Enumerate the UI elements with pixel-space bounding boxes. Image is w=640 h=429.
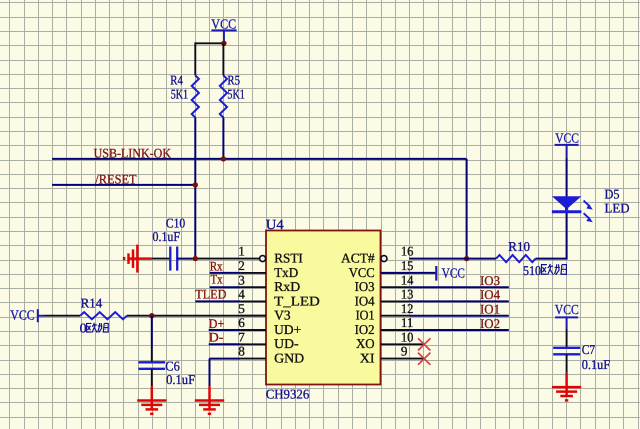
junction R14/C6/pin5 [149, 313, 154, 318]
U4 right pin lead 13 [381, 300, 410, 302]
svg-text:IO1: IO1 [356, 308, 375, 323]
wire D+ (pin6) [209, 329, 241, 331]
U4 left pin lead 3 [240, 286, 266, 288]
wire D- (pin7) [209, 343, 241, 345]
wire R14 to pin5 [127, 315, 266, 317]
svg-text:IO3: IO3 [480, 273, 500, 288]
svg-text:T_LED: T_LED [274, 293, 320, 308]
svg-text:0.1uF: 0.1uF [153, 229, 181, 244]
R10 value 510欧姆 [523, 263, 566, 278]
power port VCC (C7) [555, 302, 579, 329]
svg-text:VCC: VCC [211, 17, 236, 32]
ground (C7) [552, 373, 581, 401]
wire net USB-LINK-OK [52, 158, 467, 160]
svg-text:D+: D+ [209, 316, 224, 331]
wire IO1 (pin12) [409, 315, 509, 317]
svg-text:1: 1 [238, 244, 245, 259]
svg-text:15: 15 [401, 258, 414, 273]
svg-text:XO: XO [356, 336, 375, 351]
svg-text:8: 8 [238, 344, 245, 359]
svg-text:VCC: VCC [442, 265, 465, 280]
svg-text:GND: GND [274, 351, 304, 366]
U4 pin name UD- / XO [274, 336, 375, 351]
svg-text:Tx: Tx [211, 272, 223, 287]
svg-text:RxD: RxD [274, 279, 300, 294]
IC U4 CH9326 body [266, 218, 381, 401]
junction ACT#/USB-LINK-OK [464, 256, 469, 261]
U4 right pin lead 14 [381, 286, 410, 288]
wire VCC to LED anode [566, 158, 568, 197]
svg-text:/RESET: /RESET [95, 171, 136, 186]
U4 left pin lead 7 [240, 343, 266, 345]
svg-text:U4: U4 [266, 218, 284, 233]
svg-text:TxD: TxD [274, 265, 298, 280]
svg-text:0.1uF: 0.1uF [166, 372, 195, 387]
svg-text:IO2: IO2 [480, 316, 500, 331]
junction R5/USB-LINK-OK [221, 156, 226, 161]
capacitor C10 [152, 215, 186, 270]
wire VCC (pin15) [381, 272, 437, 274]
svg-text:10: 10 [401, 329, 414, 344]
wire ACT# to R10 [409, 258, 496, 260]
svg-text:R5: R5 [227, 73, 240, 88]
svg-text:510: 510 [523, 263, 541, 278]
svg-text:V3: V3 [274, 308, 291, 323]
wire Tx (pin3) [210, 286, 241, 288]
wire Rx (pin2) [210, 272, 241, 274]
U4 pin 1 bubble [260, 256, 266, 262]
svg-text:C7: C7 [582, 342, 596, 357]
U4 right pin lead 11 [381, 329, 410, 331]
wire VCC junction to R4 top [195, 43, 224, 75]
U4 left pin lead 6 [240, 329, 266, 331]
wire IO2 (pin11) [409, 329, 509, 331]
resistor R10 [496, 239, 535, 262]
svg-text:R14: R14 [81, 295, 103, 310]
R14 value 0欧姆 [80, 320, 109, 335]
svg-text:9: 9 [401, 344, 408, 359]
svg-text:5K1: 5K1 [227, 87, 244, 102]
svg-text:5: 5 [238, 301, 245, 316]
wire VCC to R14 [45, 315, 81, 317]
power port VCC (above LED) [555, 131, 579, 158]
resistor R14 [80, 295, 127, 319]
svg-text:XI: XI [360, 351, 375, 366]
U4 pin 16 bubble [381, 256, 387, 262]
svg-text:13: 13 [401, 287, 414, 302]
svg-text:0.1uF: 0.1uF [582, 357, 611, 372]
wire R10 to LED [536, 213, 567, 259]
wire IO4 (pin13) [409, 300, 509, 302]
U4 pin name TxD / VCC [274, 265, 374, 280]
svg-text:IO2: IO2 [355, 322, 375, 337]
wire USB-LINK-OK down to ACT# [466, 159, 468, 259]
svg-text:4: 4 [238, 287, 245, 302]
resistor R5 [220, 73, 245, 118]
U4 pin name RxD / IO3 [274, 279, 375, 294]
U4 pin name GND / XI [274, 351, 374, 366]
U4 left pin lead 2 [240, 272, 266, 274]
wire net /RESET [52, 184, 195, 186]
svg-text:3: 3 [238, 272, 245, 287]
svg-text:CH9326: CH9326 [266, 386, 310, 401]
wire R5 top lead [222, 43, 224, 75]
svg-text:VCC: VCC [10, 308, 34, 323]
wire GND (pin8) to ground [210, 359, 241, 387]
U4 pin name V3 / IO1 [274, 308, 374, 323]
wire R5 bottom down to USB-LINK-OK [222, 118, 224, 159]
svg-text:IO4: IO4 [480, 287, 500, 302]
U4 pin name T_LED / IO4 [274, 293, 375, 308]
wire R4 bottom down to pin1 line [194, 118, 196, 259]
U4 left pin lead 4 [240, 300, 266, 302]
U4 pin 1 lead [195, 258, 259, 260]
svg-text:IO1: IO1 [480, 302, 500, 317]
U4 pin name RSTI / ACT# [274, 251, 375, 266]
svg-text:C10: C10 [166, 215, 185, 230]
junction C10/RESET-line/pin1 [193, 256, 198, 261]
svg-text:UD-: UD- [274, 336, 298, 351]
svg-text:IO3: IO3 [355, 279, 375, 294]
svg-text:C6: C6 [165, 358, 180, 373]
U4 right pin lead 9 [381, 358, 425, 360]
svg-text:UD+: UD+ [274, 322, 301, 337]
U4 pin name UD+ / IO2 [274, 322, 374, 337]
resistor R4 [170, 73, 199, 118]
svg-text:VCC: VCC [349, 265, 375, 280]
power port VCC (pin15) [436, 265, 465, 280]
junction VCC/R4/R5 [221, 41, 226, 46]
svg-text:12: 12 [401, 301, 414, 316]
svg-text:LED: LED [605, 200, 630, 215]
capacitor C7 [553, 329, 610, 373]
wire TLED (pin4) [195, 300, 240, 302]
svg-text:14: 14 [401, 272, 414, 287]
power port VCC (top) [211, 17, 236, 44]
svg-text:6: 6 [238, 315, 245, 330]
svg-text:D5: D5 [605, 186, 620, 201]
capacitor C6 [138, 316, 195, 388]
svg-text:D-: D- [209, 330, 224, 345]
svg-text:ACT#: ACT# [341, 251, 375, 266]
svg-text:2: 2 [238, 258, 245, 273]
svg-text:16: 16 [401, 244, 414, 259]
svg-text:USB-LINK-OK: USB-LINK-OK [94, 145, 172, 160]
wire IO3 (pin14) [409, 286, 509, 288]
svg-text:TLED: TLED [195, 286, 226, 301]
U4 right pin lead 12 [381, 315, 410, 317]
U4 right pin lead 10 [381, 343, 425, 345]
ground (pin8) [195, 386, 224, 414]
junction R4-line//RESET [193, 182, 198, 187]
U4 left pin lead 8 [240, 358, 266, 360]
LED D5 [552, 186, 630, 222]
svg-text:11: 11 [401, 315, 414, 330]
svg-text:5K1: 5K1 [171, 87, 188, 102]
svg-text:R4: R4 [170, 73, 183, 88]
U4 left pin lead 5 [240, 315, 266, 317]
svg-text:IO4: IO4 [355, 293, 375, 308]
ground (C10 left) [124, 245, 152, 273]
no-ERC X pin9 [418, 353, 430, 365]
wire C10 to pin1 [177, 258, 195, 260]
U4 right pin lead 15 [381, 272, 410, 274]
power port VCC (left) [10, 308, 44, 323]
svg-text:VCC: VCC [555, 131, 579, 146]
ground (C6) [137, 386, 166, 414]
svg-text:7: 7 [238, 329, 245, 344]
no-ERC X pin10 [418, 338, 430, 350]
svg-text:0: 0 [80, 320, 87, 335]
svg-text:R10: R10 [508, 239, 530, 254]
svg-text:VCC: VCC [555, 302, 579, 317]
svg-text:RSTI: RSTI [274, 251, 303, 266]
